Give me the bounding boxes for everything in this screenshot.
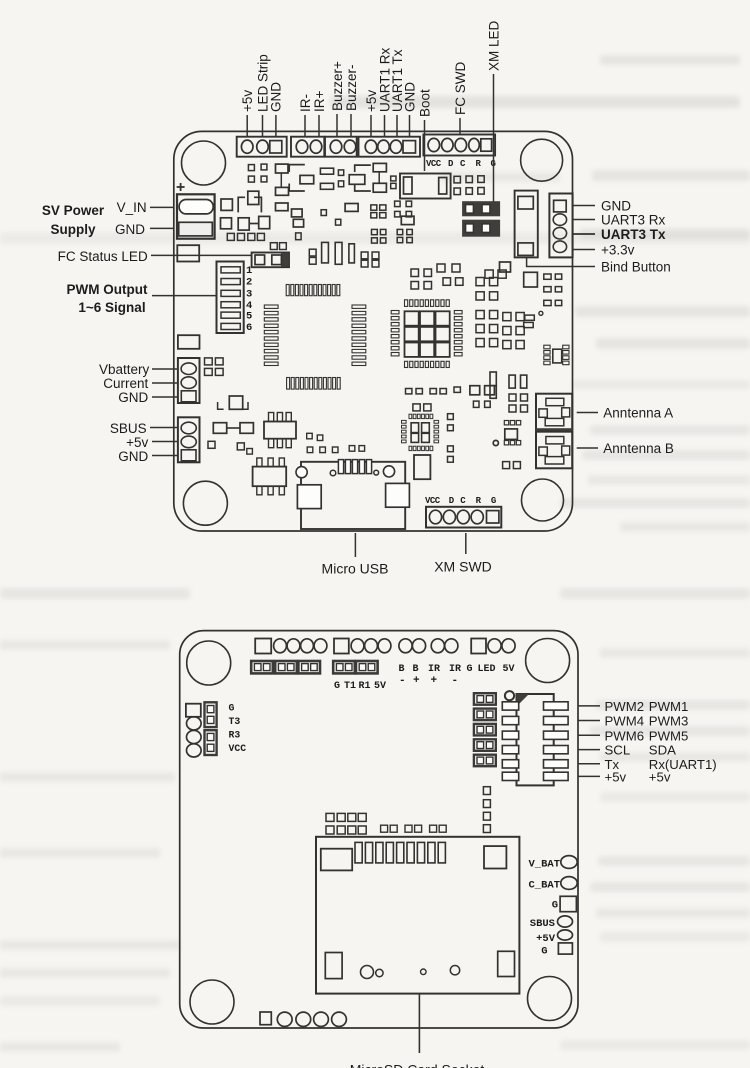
XM LED header 1 (dark) (463, 202, 500, 216)
svg-text:IR-: IR- (298, 94, 313, 112)
component row mid 2 (276, 201, 415, 243)
microSD card socket (316, 837, 519, 994)
connector J4 +5v/UART1 (359, 137, 421, 157)
svg-text:5V: 5V (374, 681, 386, 692)
svg-text:R1: R1 (359, 681, 371, 692)
svg-text:Buzzer-: Buzzer- (344, 64, 359, 111)
svg-text:R: R (476, 496, 482, 506)
pin 1 marker circle (505, 691, 514, 700)
svg-text:GND: GND (118, 449, 148, 464)
separator antenna connectors (536, 429, 572, 433)
label Bind Button with wire (527, 257, 671, 274)
svg-text:SCL: SCL (605, 743, 631, 758)
FC status LED header (252, 253, 289, 268)
label FC Status LED (58, 249, 252, 264)
svg-text:D: D (449, 496, 455, 506)
SBUS +5V G pads (530, 916, 573, 958)
label XM SWD with wire (434, 533, 492, 575)
micro USB connector (296, 460, 409, 529)
svg-text:IR: IR (449, 664, 461, 675)
svg-text:C_BAT: C_BAT (528, 880, 560, 892)
board 1 mounting hole bottom-right (522, 479, 564, 521)
svg-text:UART3 Tx: UART3 Tx (601, 227, 666, 242)
PWM output header 1-6 (217, 262, 253, 335)
XM LED header 2 (dark) (463, 220, 500, 236)
label UART1 Tx (rotated) (390, 49, 405, 137)
svg-text:G: G (541, 946, 547, 958)
label UART3 Rx (573, 212, 666, 227)
connector SBUS/+5v/GND (178, 417, 200, 462)
label SBUS (110, 421, 178, 436)
svg-text:IR: IR (428, 664, 440, 675)
svg-text:3: 3 (246, 289, 252, 301)
resistor row top (276, 163, 397, 195)
label Anntenna A (577, 406, 673, 421)
svg-text:GND: GND (118, 390, 148, 405)
label +5v (rotated) (364, 90, 379, 137)
label MicroSD Card Socket with wire (350, 994, 485, 1068)
svg-text:FC SWD: FC SWD (453, 62, 468, 115)
svg-text:+5v: +5v (605, 769, 627, 784)
svg-text:T3: T3 (229, 716, 241, 727)
V_BAT C_BAT G pads (528, 856, 577, 912)
svg-text:GND: GND (601, 198, 631, 213)
capacitor pairs below gyro (406, 386, 495, 411)
board 2 mounting hole top-left (187, 641, 231, 685)
label GND (rotated) (269, 82, 284, 137)
svg-text:GND: GND (269, 82, 284, 112)
capacitor column below DIP (483, 787, 490, 833)
svg-text:GND: GND (115, 222, 145, 237)
connector Anntenna B (536, 432, 572, 469)
components left-bottom quadrant (178, 335, 323, 454)
silkscreen G T1 R1 5V (334, 681, 386, 692)
svg-text:B: B (413, 664, 419, 675)
label XM LED (rotated) (486, 20, 501, 202)
svg-text:1~6 Signal: 1~6 Signal (78, 300, 145, 315)
label GND power (115, 222, 174, 237)
svg-text:Anntenna B: Anntenna B (603, 441, 674, 456)
svg-text:MicroSD Card Socket: MicroSD Card Socket (350, 1062, 485, 1068)
connector XM SWD (426, 507, 501, 528)
board 2 mounting hole top-right (526, 639, 570, 683)
svg-text:C: C (460, 496, 466, 506)
svg-text:VCC: VCC (425, 496, 441, 506)
svg-text:XM LED: XM LED (486, 20, 501, 71)
capacitor grid right-center (411, 264, 506, 289)
svg-text:B: B (399, 664, 405, 675)
svg-text:SDA: SDA (649, 743, 676, 758)
component cluster top-left (221, 164, 267, 229)
svg-text:XM SWD: XM SWD (434, 559, 492, 575)
small parts lower right (493, 375, 527, 469)
svg-text:Boot: Boot (417, 89, 432, 117)
svg-text:G: G (334, 681, 340, 692)
voltage regulator U6 SOT (264, 413, 296, 448)
capacitor row small bottom of top cluster (227, 233, 301, 250)
svg-text:Current: Current (103, 376, 148, 391)
capacitor cluster below U5 (454, 176, 484, 195)
board2 bottom pad row (260, 1012, 346, 1027)
board 1 mounting hole top-right (521, 139, 563, 181)
svg-text:G: G (229, 702, 235, 713)
silkscreen VCC D C R G top (426, 159, 496, 169)
svg-text:C: C (460, 159, 466, 169)
svg-text:PWM3: PWM3 (649, 714, 689, 729)
label +3.3v (573, 242, 635, 257)
svg-text:Bind Button: Bind Button (601, 260, 671, 275)
board2 top pad row (255, 639, 515, 654)
label GND sbus (118, 449, 178, 464)
label Current (103, 376, 178, 391)
component U5 dual-bar (400, 174, 451, 199)
connector UART3 (549, 194, 572, 258)
capacitor row above USB (307, 446, 364, 453)
board 1 mounting hole top-left (182, 141, 226, 185)
connector Vbattery/Current/GND (178, 358, 200, 403)
tall component right of USB (414, 455, 430, 479)
svg-text:-: - (452, 675, 459, 687)
connector Anntenna A (536, 394, 572, 430)
jumper header column near DIP (474, 693, 496, 766)
board 2 mounting hole bottom-left (190, 980, 234, 1024)
svg-text:+5v: +5v (126, 435, 148, 450)
component pair R-C mid-left (238, 216, 270, 230)
component bracket group Q1 (238, 191, 261, 212)
label UART3 Tx (573, 227, 666, 242)
svg-text:PWM5: PWM5 (649, 728, 689, 743)
svg-text:Buzzer+: Buzzer+ (330, 61, 345, 111)
label LED Strip (rotated) (255, 54, 270, 137)
svg-text:Anntenna A: Anntenna A (603, 406, 673, 421)
board 1 mounting hole bottom-left (183, 481, 227, 525)
label Buzzer- (rotated) (344, 64, 359, 137)
capacitor column right of U4 (448, 414, 454, 462)
scan bleed-through artifacts (600, 55, 740, 65)
board 2 outline (180, 631, 578, 1028)
svg-text:PWM2: PWM2 (605, 699, 645, 714)
svg-text:1: 1 (246, 265, 252, 277)
svg-text:+3.3v: +3.3v (601, 242, 635, 257)
gyro U3 with 3x3 grid (391, 300, 462, 368)
svg-text:SBUS: SBUS (530, 918, 555, 930)
svg-text:G: G (552, 900, 558, 912)
svg-text:FC Status LED: FC Status LED (58, 249, 148, 264)
svg-text:-: - (399, 675, 406, 687)
svg-text:5: 5 (246, 311, 252, 323)
label GND (rotated) (402, 82, 417, 137)
svg-text:T1: T1 (344, 681, 356, 692)
UART3 pads G T3 R3 VCC (186, 702, 246, 757)
small IC U4 with pin dots (402, 414, 439, 450)
label IR+ (rotated) (312, 91, 327, 138)
label SCL / SDA (578, 743, 676, 758)
connector J1 +5v/LEDStrip/GND (237, 137, 287, 157)
voltage regulator U7 SOT (253, 458, 287, 495)
component near bind button (515, 191, 538, 258)
label Tx / Rx(UART1) (578, 757, 717, 772)
svg-text:+5V: +5V (536, 933, 556, 945)
label +5v (rotated) (240, 90, 255, 137)
DIP-16 expansion header U8 (502, 694, 568, 785)
svg-text:R3: R3 (229, 729, 241, 740)
label Buzzer+ (rotated) (330, 61, 345, 137)
svg-text:G: G (491, 496, 496, 506)
component column far right (490, 345, 569, 398)
plus mark battery polarity (177, 183, 185, 191)
svg-text:Micro USB: Micro USB (322, 561, 389, 577)
label PWM6 / PWM5 (578, 728, 688, 743)
pad cluster above SD socket left (326, 813, 446, 834)
capacitor pairs right of crystal (361, 252, 379, 267)
label SV Power Supply (42, 203, 105, 237)
svg-text:SV Power: SV Power (42, 203, 105, 218)
svg-text:2: 2 (246, 277, 252, 289)
svg-text:R: R (476, 159, 482, 169)
svg-text:+: + (413, 675, 420, 687)
label +5v left (126, 435, 178, 450)
svg-text:PWM1: PWM1 (649, 699, 689, 714)
silkscreen VCC D C R G bottom (425, 496, 496, 506)
svg-text:IR+: IR+ (312, 91, 327, 113)
svg-text:GND: GND (402, 82, 417, 112)
svg-text:V_IN: V_IN (117, 200, 147, 215)
svg-text:VCC: VCC (229, 743, 247, 754)
svg-text:Supply: Supply (50, 222, 95, 237)
silkscreen B B IR IR G LED 5V (399, 664, 515, 687)
label PWM Output 1~6 Signal (67, 282, 217, 315)
svg-text:D: D (448, 159, 454, 169)
label V_IN (117, 200, 174, 215)
svg-text:PWM6: PWM6 (605, 728, 645, 743)
label IR- (rotated) (298, 94, 313, 137)
svg-text:6: 6 (246, 322, 252, 334)
board2 jumper header row (251, 661, 377, 673)
svg-text:+5v: +5v (649, 769, 671, 784)
svg-text:UART3 Rx: UART3 Rx (601, 212, 666, 227)
svg-text:LED: LED (478, 664, 496, 675)
svg-text:SBUS: SBUS (110, 421, 147, 436)
label UART1 Rx (rotated) (377, 47, 392, 137)
svg-text:G: G (467, 664, 473, 675)
svg-text:5V: 5V (503, 664, 515, 675)
label PWM2 / PWM1 (578, 699, 688, 714)
label Boot (rotated) (417, 89, 432, 171)
connector FC SWD (423, 135, 495, 156)
svg-text:Vbattery: Vbattery (99, 362, 150, 377)
label GND uart3 (573, 198, 632, 213)
connector V_IN/GND power (177, 194, 215, 238)
label +5v / +5v (578, 769, 671, 784)
svg-text:PWM4: PWM4 (605, 714, 645, 729)
MCU U2 pin strips (264, 285, 366, 390)
connector J2 IR-/IR+ (291, 137, 324, 157)
board 2 mounting hole bottom-right (528, 977, 572, 1021)
resistor pack far right mid (500, 262, 562, 328)
label FC SWD (rotated) (453, 62, 468, 135)
label Anntenna B (577, 441, 674, 456)
label Micro USB with wire (322, 533, 389, 577)
svg-text:PWM Output: PWM Output (67, 282, 148, 297)
svg-text:V_BAT: V_BAT (528, 859, 560, 871)
svg-text:+5v: +5v (240, 90, 255, 112)
label GND current (118, 390, 178, 405)
svg-text:VCC: VCC (426, 159, 442, 169)
label PWM4 / PWM3 (578, 714, 688, 729)
crystal vertical bars (309, 242, 354, 264)
capacitor bank right of gyro (476, 278, 524, 349)
component below V_IN connector (177, 245, 199, 261)
board 1 outline (174, 131, 573, 531)
connector J3 Buzzer+/Buzzer- (325, 137, 357, 157)
label Vbattery (99, 362, 178, 377)
svg-text:+: + (431, 675, 438, 687)
